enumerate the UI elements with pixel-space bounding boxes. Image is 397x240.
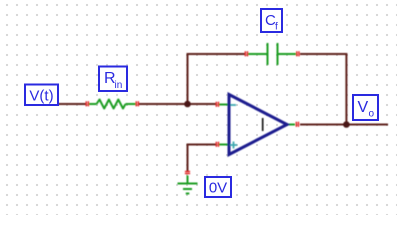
node junction inverting input: [184, 101, 191, 108]
wire feedback right vertical: [345, 53, 347, 125]
op-amp designator 1: [262, 118, 264, 131]
label box R_in: [99, 67, 127, 92]
svg-text:in: in: [115, 80, 123, 91]
pin marks: ground x (vertical pair): [185, 171, 190, 175]
wire resistor to inverting input: [139, 103, 216, 105]
label box 0V: [205, 177, 231, 197]
label box C_f: [261, 9, 282, 33]
op-amp inverting minus sign: [231, 104, 237, 106]
svg-text:o: o: [369, 109, 375, 120]
op-amp U1 input pin stubs: [219, 104, 228, 106]
capacitor Cf left lead: [248, 53, 267, 55]
op-amp non-inverting plus sign: [230, 144, 237, 146]
wire feedback top left segment: [187, 53, 247, 55]
svg-text:V: V: [358, 99, 369, 116]
pin marks: resistor right x: [136, 101, 140, 106]
ground symbol: [178, 176, 198, 194]
pin marks: V(t) output x: [86, 101, 90, 106]
label box V(t): [25, 85, 58, 106]
wire input from V(t) to resistor: [58, 103, 87, 105]
label box V_o: [353, 95, 378, 120]
pin marks: non-inverting input x: [216, 142, 220, 147]
pin marks: inverting input x: [216, 102, 220, 107]
pin marks: op-amp output x: [296, 122, 300, 127]
resistor R_in leads: [88, 103, 97, 105]
wire non-inverting input horizontal: [187, 144, 217, 146]
wire to ground vertical: [187, 144, 189, 172]
wire feedback top right segment: [300, 53, 346, 55]
node junction output: [343, 121, 350, 128]
resistor R1 zigzag: [97, 100, 126, 109]
capacitor Cf right plate: [277, 43, 279, 65]
wire feedback left vertical: [187, 53, 189, 104]
svg-text:V(t): V(t): [29, 88, 53, 105]
op-amp U1 triangle: [229, 95, 287, 155]
svg-text:0V: 0V: [209, 180, 227, 197]
pin marks: capacitor left x: [245, 51, 249, 56]
svg-text:f: f: [275, 22, 278, 33]
capacitor Cf left plate: [267, 43, 269, 65]
op-amp U1 output pin stub: [287, 124, 295, 126]
capacitor Cf right lead: [279, 53, 297, 55]
pin marks: capacitor right x: [296, 51, 300, 56]
wire output run: [300, 124, 388, 126]
